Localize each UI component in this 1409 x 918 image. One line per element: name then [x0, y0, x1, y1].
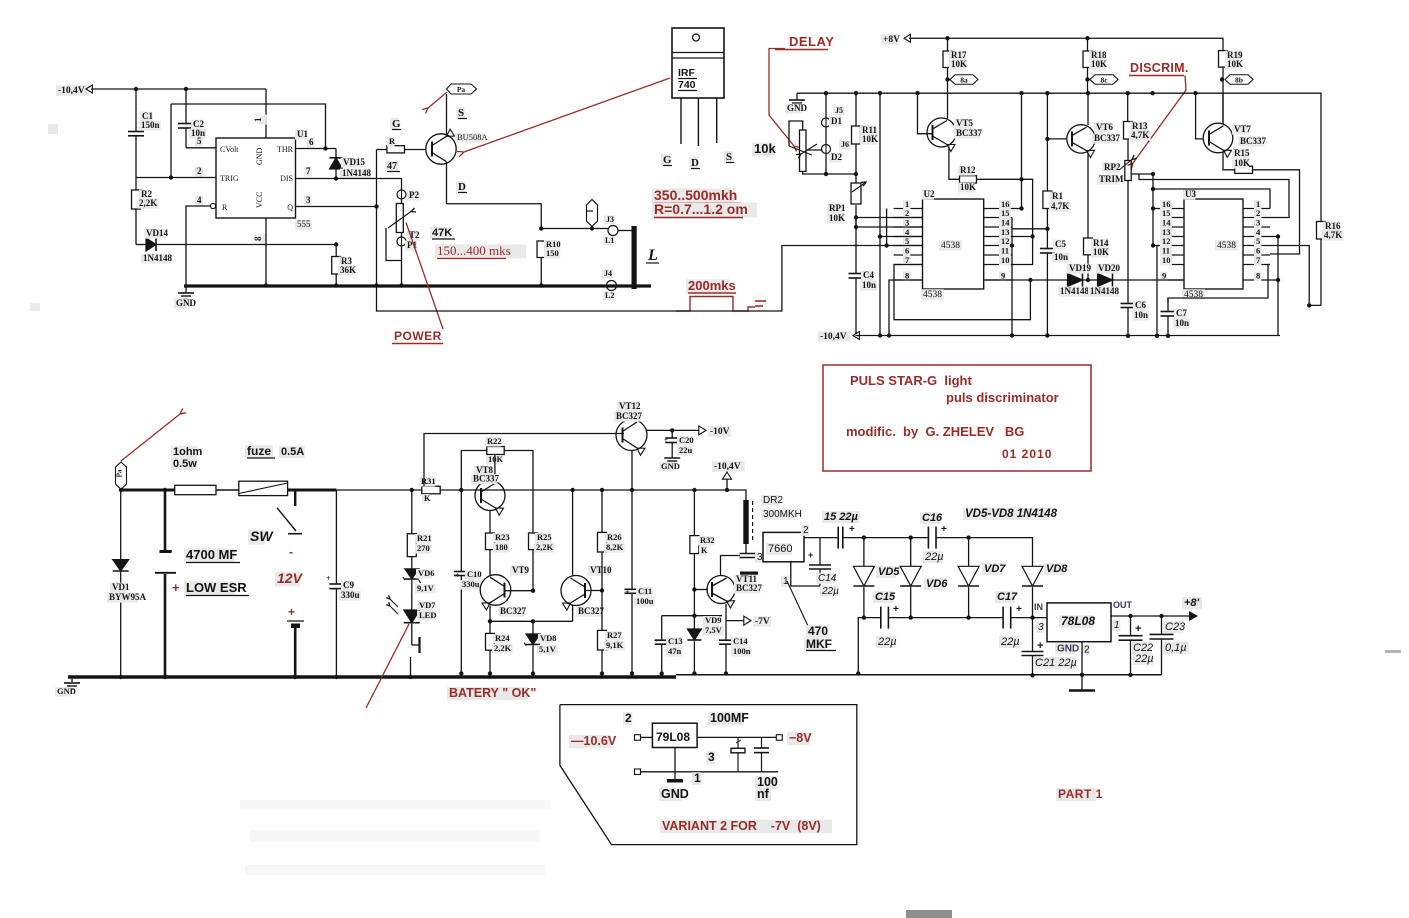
svg-text:K: K [424, 493, 431, 503]
svg-text:11: 11 [1162, 246, 1170, 256]
wire pot wiper to D2 [806, 149, 823, 151]
resistor R32 [692, 488, 696, 492]
red pointer to pot [406, 223, 443, 330]
pin 3 label [706, 751, 715, 764]
diode VD15 [335, 149, 337, 158]
wire Q to gate resistor vertical [376, 150, 378, 286]
jack J3 L1 [608, 226, 618, 236]
resistor R31 [422, 486, 440, 494]
svg-text:LED: LED [419, 610, 436, 620]
svg-text:SW: SW [250, 528, 274, 544]
wire +8V rail [909, 38, 1223, 50]
svg-text:RP2: RP2 [1104, 162, 1121, 172]
resistor R3 [335, 245, 337, 257]
svg-text:+8V: +8V [883, 35, 900, 45]
wire RP1 to U2 pin2 [856, 217, 923, 219]
label 10k [752, 142, 775, 156]
pointer 8b [1220, 77, 1224, 81]
svg-text:8c: 8c [1100, 76, 1108, 85]
resistor R12 [949, 147, 960, 180]
svg-text:C6: C6 [1135, 300, 1146, 310]
svg-text:2,2K: 2,2K [139, 198, 157, 208]
svg-text:U3: U3 [1185, 189, 1196, 199]
net -10,4V arrow mid [712, 461, 745, 472]
svg-text:15 22µ: 15 22µ [824, 511, 859, 523]
svg-text:+: + [288, 605, 295, 619]
svg-text:LOW ESR: LOW ESR [186, 580, 247, 595]
resistor R1 [1046, 93, 1048, 191]
wire U2 pins1-5 bracket [886, 209, 888, 246]
svg-text:+: + [1016, 604, 1022, 615]
svg-text:+: + [654, 637, 658, 645]
svg-text:nf: nf [757, 787, 770, 801]
svg-text:4538: 4538 [941, 241, 960, 251]
svg-text:+: + [1037, 640, 1043, 652]
svg-text:4538: 4538 [923, 290, 942, 300]
node C1 tap [134, 87, 138, 91]
wire VT6 emitter to R14 [1087, 153, 1089, 239]
wire U3 pin16 [1153, 208, 1160, 210]
svg-text:4: 4 [197, 195, 202, 205]
svg-text:+: + [849, 524, 855, 535]
svg-text:+: + [941, 524, 947, 535]
svg-text:12: 12 [1001, 236, 1010, 246]
svg-text:330u: 330u [462, 579, 480, 589]
output wire [697, 736, 776, 738]
svg-text:78L08: 78L08 [1061, 614, 1095, 628]
wire TRIG pin2 [136, 177, 216, 179]
label BATERY OK red [447, 687, 528, 701]
svg-text:IN: IN [1034, 602, 1043, 612]
ground rail thin right [676, 674, 1162, 676]
wire R15 to U3 pin6 [1253, 170, 1300, 254]
svg-text:GND: GND [661, 787, 689, 801]
resistor R21 [410, 488, 414, 492]
svg-text:VT9: VT9 [512, 565, 530, 575]
label 200mks red [686, 279, 730, 293]
svg-text:J5: J5 [835, 106, 843, 115]
svg-text:-: - [289, 545, 293, 559]
svg-text:R: R [222, 203, 228, 212]
jack J5 D1 [825, 93, 827, 118]
net -7V arrow [726, 620, 745, 622]
svg-text:330u: 330u [341, 590, 360, 600]
svg-text:470: 470 [808, 624, 828, 638]
IC U3 4538 [1184, 199, 1243, 289]
wire VT10 collector [572, 490, 574, 576]
svg-text:VD14: VD14 [146, 228, 168, 238]
svg-text:+: + [455, 571, 460, 580]
svg-text:22µ: 22µ [1000, 636, 1020, 648]
resistor R15 [1223, 153, 1235, 170]
svg-text:100n: 100n [733, 646, 751, 656]
svg-text:2,2K: 2,2K [536, 542, 554, 552]
search coil L [632, 226, 637, 289]
svg-text:150: 150 [546, 248, 559, 258]
red arrow near Pa [428, 92, 447, 108]
wire VD20 to U3 pin9 [1113, 279, 1185, 281]
svg-text:R22: R22 [487, 436, 502, 446]
red artifact dashes [755, 300, 766, 302]
resistor R25 [529, 533, 538, 550]
svg-text:9,1K: 9,1K [606, 640, 624, 650]
transistor VT12 BC327 [616, 420, 647, 451]
capacitor osc pin3 [740, 553, 757, 555]
zener VD8 5,1V [532, 621, 534, 634]
svg-text:GND: GND [661, 461, 680, 471]
variant box outline [560, 705, 857, 845]
svg-text:R25: R25 [537, 532, 552, 542]
svg-text:C13: C13 [668, 636, 683, 646]
svg-text:DELAY: DELAY [789, 34, 834, 49]
svg-text:22u: 22u [679, 445, 693, 455]
wire pump top bus [843, 537, 929, 539]
svg-text:12: 12 [1162, 236, 1171, 246]
svg-text:VD15: VD15 [343, 157, 365, 167]
svg-text:R1: R1 [1052, 191, 1063, 201]
svg-text:8b: 8b [1235, 76, 1243, 85]
svg-text:VT7: VT7 [1234, 124, 1252, 134]
wire VT11 emitter node [662, 615, 722, 617]
svg-text:+: + [172, 580, 180, 595]
wire VT10 emitter [572, 606, 574, 622]
svg-text:1N4148: 1N4148 [342, 168, 371, 178]
svg-text:D2: D2 [831, 152, 842, 162]
wire top inner loop [171, 104, 326, 149]
svg-text:300MKH: 300MKH [763, 509, 802, 520]
svg-text:C21 22µ: C21 22µ [1035, 657, 1077, 669]
svg-text:3: 3 [1038, 622, 1044, 633]
svg-text:9: 9 [1001, 271, 1005, 281]
svg-text:2: 2 [197, 166, 202, 176]
svg-text:150n: 150n [141, 120, 160, 130]
wire bus to rail left of U2 [879, 93, 881, 335]
zener VD6 9,1V [411, 557, 413, 569]
svg-text:3: 3 [306, 195, 311, 205]
svg-text:6: 6 [309, 137, 314, 147]
svg-text:10K: 10K [862, 134, 878, 144]
label 350..500mkh red [652, 189, 735, 204]
svg-text:VD1: VD1 [112, 582, 130, 592]
svg-text:VT10: VT10 [590, 565, 612, 575]
svg-text:R=0.7...1.2 om: R=0.7...1.2 om [654, 201, 748, 217]
ground symbol C20 [664, 457, 680, 459]
svg-text:C23: C23 [1165, 621, 1186, 633]
transistor VT10 BC327 [561, 576, 591, 606]
connector Pa bottom [116, 462, 127, 490]
resistor R gate [377, 149, 388, 151]
label VARIANT 2 red [660, 820, 832, 834]
transistor VT9 BC327 [480, 575, 511, 606]
svg-text:L: L [647, 247, 658, 264]
pin number 1 [259, 115, 267, 125]
wire R22 left [461, 451, 487, 491]
svg-text:22µ: 22µ [877, 636, 897, 648]
pin 2 label [623, 712, 632, 725]
svg-text:47K: 47K [432, 227, 452, 239]
label S [456, 107, 465, 119]
wire VT12 collector -10V out [646, 429, 673, 431]
label 12V red [275, 572, 300, 587]
svg-text:C16: C16 [922, 512, 943, 524]
svg-text:G: G [392, 118, 401, 130]
red pointer DELAY to pot [769, 49, 794, 147]
svg-text:2: 2 [625, 711, 632, 725]
svg-text:D: D [458, 181, 466, 193]
svg-text:+8': +8' [1184, 597, 1200, 609]
svg-text:1N4148: 1N4148 [1060, 286, 1089, 296]
wire U2 pin7 bottom loop [894, 265, 1030, 320]
output pad [776, 735, 782, 741]
svg-text:2: 2 [905, 208, 909, 218]
capacitor C15 [880, 607, 882, 629]
resistor R27 [598, 630, 607, 650]
svg-text:10K: 10K [1234, 158, 1250, 168]
svg-text:3: 3 [708, 750, 715, 764]
wire pin6 THR [296, 148, 337, 150]
wire pin3 Q out [296, 206, 377, 208]
svg-text:IRF: IRF [678, 67, 696, 79]
jack J4 L2 [607, 281, 617, 291]
capacitor C7 [1161, 311, 1176, 313]
wire DR2 to 7660 pin3 [745, 544, 747, 554]
capacitor C2 [185, 89, 187, 123]
svg-text:5: 5 [1256, 236, 1260, 246]
svg-text:R: R [389, 136, 396, 146]
svg-text:10n: 10n [1054, 252, 1068, 262]
svg-text:150...400 mks: 150...400 mks [437, 243, 511, 258]
svg-text:2: 2 [803, 525, 809, 536]
zener VD9 7,5V [693, 616, 695, 629]
svg-text:-10,4V: -10,4V [714, 462, 741, 472]
battery plus rail thick [121, 489, 175, 492]
svg-text:2,2K: 2,2K [494, 643, 512, 653]
svg-text:10: 10 [1162, 255, 1171, 265]
net +8 output arrow [1189, 611, 1198, 621]
ground symbol GND [185, 287, 187, 293]
svg-text:R23: R23 [495, 532, 510, 542]
svg-text:R27: R27 [607, 630, 622, 640]
capacitor C17 [1002, 607, 1004, 629]
svg-text:Pa: Pa [457, 85, 466, 94]
diode VD1 BYW95A [119, 488, 123, 492]
net -10,4V supply label [56, 85, 89, 96]
wire pin1 drop [265, 89, 267, 138]
svg-text:-7V: -7V [755, 617, 770, 627]
svg-text:15: 15 [1162, 208, 1171, 218]
svg-text:J6: J6 [841, 140, 849, 149]
svg-text:-10V: -10V [710, 427, 730, 437]
resistor R24 [489, 621, 491, 633]
79L08 gnd pin [674, 748, 676, 772]
svg-text:10K: 10K [1091, 59, 1107, 69]
svg-text:R21: R21 [417, 533, 432, 543]
svg-text:puls discriminator: puls discriminator [946, 390, 1059, 405]
pin number 7 [304, 167, 312, 177]
capacitor 15 22u [837, 527, 839, 549]
diode VD6 [910, 538, 912, 567]
ground rail bottom thick [68, 675, 676, 678]
diode VD19 [984, 279, 1068, 281]
switch SW [294, 490, 296, 506]
ground symbol variant [674, 772, 676, 779]
capacitor 100MF [737, 737, 739, 748]
wire pin3 to VT11 collector [721, 556, 741, 576]
ground symbol bottom left [71, 679, 73, 682]
label D pin [689, 157, 698, 169]
svg-text:0.5w: 0.5w [173, 458, 197, 470]
svg-text:BC327: BC327 [616, 411, 643, 421]
LED VD7 [404, 610, 420, 623]
svg-text:7660: 7660 [768, 543, 792, 555]
trimmer RP2 TRIM [1125, 161, 1131, 181]
svg-text:OUT: OUT [1113, 600, 1133, 610]
diode VD14 [136, 244, 146, 246]
svg-text:BC337: BC337 [956, 128, 983, 138]
svg-text:10K: 10K [1093, 247, 1109, 257]
svg-text:8: 8 [253, 236, 263, 241]
wire U3 pin5 to R16 [1270, 246, 1321, 306]
svg-text:Q: Q [287, 203, 293, 212]
trimmer RP1 [855, 174, 857, 183]
svg-text:VD8: VD8 [540, 633, 557, 643]
svg-text:14: 14 [1001, 218, 1010, 228]
svg-text:11: 11 [1001, 246, 1009, 256]
input pad [635, 735, 641, 741]
fuse holder [239, 481, 288, 495]
svg-text:4,7K: 4,7K [1324, 230, 1342, 240]
net -10,4V rail [818, 331, 851, 342]
red pointer DISCRIM to RP2 [1133, 76, 1186, 164]
wire R22 right to R25 [504, 451, 533, 534]
label 100MF [708, 712, 744, 726]
resistor R17 [947, 38, 949, 51]
svg-text:BC337: BC337 [1094, 133, 1121, 143]
svg-text:C5: C5 [1055, 239, 1066, 249]
jack J6 D2 [825, 127, 827, 145]
wire R12 to U2 pin16 [1021, 93, 1023, 208]
svg-text:3: 3 [757, 552, 763, 563]
wire VT9 emitter row [490, 606, 573, 622]
svg-text:DISCRIM.: DISCRIM. [1130, 61, 1189, 75]
IC 7660 charge pump [763, 532, 804, 561]
label S pin [724, 151, 733, 163]
svg-text:VD7: VD7 [419, 600, 436, 610]
capacitor C1 [135, 89, 137, 131]
svg-text:VARIANT 2 FOR -7V (8V): VARIANT 2 FOR -7V (8V) [662, 819, 821, 833]
diode VD7 [968, 538, 970, 567]
svg-text:VD7: VD7 [984, 563, 1006, 575]
svg-text:VCC: VCC [255, 192, 264, 208]
node drain-R10 [539, 226, 543, 230]
svg-text:BC327: BC327 [500, 606, 527, 616]
ground rail thick [184, 284, 651, 287]
svg-text:12V: 12V [277, 570, 304, 586]
resistor R19 [1219, 51, 1228, 68]
pin number 6 [307, 138, 315, 148]
title box red [823, 365, 1091, 471]
resistor R10 [537, 241, 545, 258]
wire pin5 [186, 147, 216, 149]
svg-text:10k: 10k [754, 141, 776, 156]
connector Pa top [447, 84, 477, 94]
label 47K [430, 227, 450, 239]
svg-text:4538: 4538 [1217, 241, 1236, 251]
svg-text:01 2010: 01 2010 [1002, 447, 1052, 461]
svg-text:DIS: DIS [280, 174, 293, 183]
svg-text:S: S [458, 107, 464, 119]
wire U2 pin8 to -10.4V rail [889, 280, 923, 336]
svg-text:2: 2 [1084, 645, 1090, 656]
svg-text:−8V: −8V [789, 731, 812, 745]
svg-text:VD19: VD19 [1069, 263, 1091, 273]
wire Pa to source [446, 94, 448, 135]
svg-text:BC337: BC337 [1240, 136, 1267, 146]
transistor BU508A [426, 134, 456, 164]
svg-text:BC337: BC337 [473, 474, 500, 484]
resistor R23 [489, 511, 491, 534]
svg-text:C11: C11 [638, 586, 652, 596]
svg-text:BC327: BC327 [578, 606, 605, 616]
svg-text:J3: J3 [606, 215, 614, 224]
svg-text:10n: 10n [862, 280, 876, 290]
wire pin8 to ground [265, 218, 267, 286]
wire 78L08 out [1111, 615, 1191, 617]
wire R12 down to pin10 [1012, 237, 1033, 265]
resistor R22 [487, 447, 504, 455]
svg-text:VD6: VD6 [926, 578, 948, 590]
svg-text:1N4148: 1N4148 [1090, 286, 1119, 296]
red arrow from Pa [121, 414, 180, 461]
svg-text:BU508A: BU508A [457, 132, 489, 142]
svg-text:1ohm: 1ohm [173, 446, 203, 458]
svg-text:L1: L1 [605, 236, 614, 245]
svg-text:VT12: VT12 [619, 401, 641, 411]
diode VD5 [863, 538, 865, 567]
connector plug symbol [587, 200, 598, 227]
svg-text:+: + [1135, 623, 1141, 635]
wire pot wiper bracket [386, 228, 402, 261]
svg-text:7: 7 [306, 166, 311, 176]
wire U3 pin7 to C7 [1168, 265, 1270, 304]
svg-text:36K: 36K [340, 265, 356, 275]
red pulse waveform [676, 297, 755, 312]
svg-text:C20: C20 [679, 435, 694, 445]
svg-text:U2: U2 [924, 189, 935, 199]
label G pin [661, 154, 670, 166]
wire U2 pin5 ground return [377, 246, 887, 312]
resistor R14 [1084, 238, 1093, 255]
transistor VT6 BC337 [1047, 138, 1067, 140]
svg-text:C14: C14 [818, 573, 837, 584]
net +8V label [881, 34, 899, 45]
svg-text:1: 1 [694, 771, 701, 785]
svg-text:10n: 10n [1175, 318, 1189, 328]
pin 1 label [692, 772, 701, 785]
svg-text:C14: C14 [733, 636, 748, 646]
resistor R13 [1127, 93, 1129, 121]
svg-text:100MF: 100MF [710, 711, 749, 725]
svg-text:555: 555 [297, 219, 311, 229]
transistor VT8 BC337 [494, 455, 496, 481]
svg-text:VD5-VD8 1N4148: VD5-VD8 1N4148 [965, 508, 1058, 520]
resistor R26 [600, 488, 604, 492]
capacitor C6 [1121, 303, 1136, 305]
svg-text:C9: C9 [343, 580, 354, 590]
svg-text:R24: R24 [495, 633, 510, 643]
svg-text:22µ: 22µ [1134, 653, 1154, 665]
svg-text:S: S [726, 151, 732, 163]
